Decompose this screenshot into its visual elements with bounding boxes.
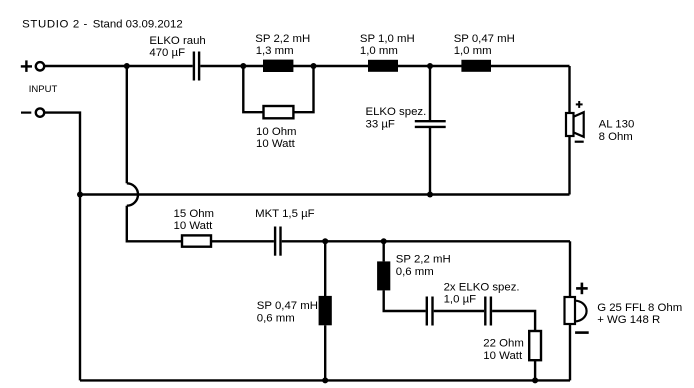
junction dot middle rail E (77, 192, 83, 198)
wire tweeter feed down (569, 241, 571, 297)
svg-text:ELKO rauh: ELKO rauh (149, 35, 205, 47)
wire second rail right (282, 240, 570, 242)
inductor L4 SP 0,47 mH (319, 296, 332, 325)
svg-text:1,3 mm: 1,3 mm (256, 45, 294, 57)
speaker LS1 AL 130 (566, 112, 584, 137)
junction dot top rail B (240, 63, 246, 69)
wire L5 bottom to C4 (384, 290, 426, 311)
inductor L3 SP 0,47 mH (461, 60, 491, 72)
wire R2 to C3 (211, 240, 274, 242)
inductor L2 SP 1,0 mH (368, 60, 398, 72)
svg-text:-: - (84, 19, 88, 31)
junction dot top rail A (124, 63, 130, 69)
svg-text:10 Ohm: 10 Ohm (256, 126, 297, 138)
svg-text:SP 2,2 mH: SP 2,2 mH (396, 254, 451, 266)
tweeter LS2 plus mark (576, 283, 588, 295)
svg-text:0,6 mm: 0,6 mm (257, 312, 295, 324)
resistor R2 15 Ohm (182, 235, 211, 246)
terminal plus circle (36, 62, 44, 70)
svg-text:10 Watt: 10 Watt (256, 138, 296, 150)
svg-text:INPUT: INPUT (29, 84, 58, 95)
wire C5 to R3 (492, 311, 535, 331)
terminal plus sign (21, 60, 32, 72)
junction dot bottom rail I (322, 377, 328, 383)
wire top rail right of C1 (200, 65, 569, 67)
svg-text:470 µF: 470 µF (149, 47, 185, 59)
svg-text:Stand 03.09.2012: Stand 03.09.2012 (93, 19, 183, 31)
wire L5 top (383, 241, 385, 261)
capacitor C5 plates (485, 297, 491, 326)
svg-text:8 Ohm: 8 Ohm (599, 131, 633, 143)
wire hop branch lower (127, 206, 182, 242)
resistor R1 10 Ohm (264, 106, 294, 118)
junction dot top rail D (427, 63, 433, 69)
svg-text:22 Ohm: 22 Ohm (483, 337, 524, 349)
inductor L1 SP 2,2 mH (263, 60, 293, 72)
wire AL130 top (568, 66, 570, 113)
svg-text:MKT 1,5 µF: MKT 1,5 µF (255, 208, 315, 220)
junction dot top rail C (311, 63, 317, 69)
svg-text:STUDIO 2: STUDIO 2 (22, 19, 80, 31)
svg-text:ELKO spez.: ELKO spez. (366, 106, 427, 118)
wire R1 branch right (293, 66, 313, 112)
wire L4 top (324, 241, 326, 296)
speaker LS1 minus mark (575, 141, 584, 143)
tweeter LS2 G25 dome (575, 301, 587, 322)
wire minus input (44, 113, 80, 381)
wire C4 to C5 (434, 310, 484, 312)
wire R1 branch left (243, 66, 263, 112)
wire top rail left (44, 65, 192, 67)
svg-text:0,6 mm: 0,6 mm (396, 266, 434, 278)
capacitor C3 MKT 1,5 uF plates (275, 227, 280, 256)
svg-text:SP 2,2 mH: SP 2,2 mH (255, 33, 310, 45)
svg-text:1,0 µF: 1,0 µF (444, 294, 477, 306)
wire C2 top (429, 66, 431, 120)
wire bottom rail (80, 379, 570, 381)
wire C2 bottom (429, 128, 431, 195)
svg-text:2x ELKO spez.: 2x ELKO spez. (444, 281, 520, 293)
wire hop arc (127, 183, 138, 205)
junction dot second rail H (381, 238, 387, 244)
svg-text:AL 130: AL 130 (599, 119, 635, 131)
junction dot second rail G (322, 238, 328, 244)
svg-text:10 Watt: 10 Watt (483, 350, 523, 362)
svg-text:1,0 mm: 1,0 mm (454, 45, 492, 57)
wire middle rail (80, 193, 570, 195)
capacitor C1 ELKO rauh 470uF plates (194, 52, 199, 81)
svg-text:15 Ohm: 15 Ohm (174, 208, 215, 220)
junction dot middle rail F (427, 192, 433, 198)
speaker LS1 plus mark (576, 101, 583, 108)
capacitor C2 ELKO spez. 33uF plates (415, 121, 446, 127)
svg-text:SP 1,0 mH: SP 1,0 mH (360, 33, 415, 45)
resistor R3 22 Ohm (529, 331, 541, 360)
junction dot bottom rail J (532, 377, 538, 383)
inductor L5 SP 2,2 mH (377, 261, 390, 290)
svg-text:1,0 mm: 1,0 mm (360, 45, 398, 57)
svg-text:SP 0,47 mH: SP 0,47 mH (257, 300, 318, 312)
wire hop branch upper (126, 66, 128, 183)
wire AL130 bottom (568, 136, 570, 195)
svg-text:SP 0,47 mH: SP 0,47 mH (454, 33, 515, 45)
terminal minus circle (36, 108, 44, 116)
wire L4 bottom (324, 325, 326, 380)
tweeter LS2 body (565, 297, 576, 324)
svg-text:G 25 FFL 8 Ohm: G 25 FFL 8 Ohm (597, 302, 682, 314)
terminal minus sign (21, 111, 31, 113)
svg-text:33 µF: 33 µF (366, 119, 395, 131)
wire tweeter bottom (569, 324, 571, 380)
capacitor C4 plates (427, 297, 433, 326)
tweeter LS2 minus mark (575, 331, 589, 334)
wire R3 bottom (534, 360, 536, 380)
svg-text:+ WG 148 R: + WG 148 R (597, 314, 660, 326)
svg-text:10 Watt: 10 Watt (174, 220, 214, 232)
label title (22, 19, 183, 31)
